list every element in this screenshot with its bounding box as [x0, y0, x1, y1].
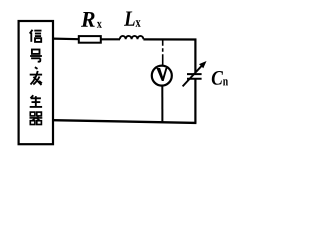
- resistor Rx: [79, 36, 101, 43]
- wire: right branch upper: [194, 39, 196, 73]
- signal generator box (信号发生器): [19, 21, 53, 144]
- capacitor Cn variable arrow: [183, 66, 202, 87]
- wire: resistor to inductor: [101, 38, 120, 40]
- wire: bottom return: [53, 120, 196, 123]
- label Rx: [81, 12, 95, 27]
- char 信: [30, 30, 42, 42]
- char 号: [30, 50, 42, 62]
- wire: voltmeter to bottom: [161, 86, 163, 121]
- label Lx: [124, 12, 135, 26]
- char 器: [30, 112, 43, 124]
- wire: right branch lower: [194, 79, 196, 124]
- label V: [156, 68, 167, 81]
- wire: inductor to top-right corner: [143, 38, 196, 40]
- wire: box to resistor (top): [53, 37, 79, 40]
- inductor Lx: [120, 36, 144, 39]
- node A: junction, wire down to voltmeter: [162, 40, 164, 65]
- char 生: [30, 95, 42, 107]
- capacitor Cn plates: [187, 74, 202, 79]
- char 发: [30, 67, 42, 85]
- voltmeter V: [152, 66, 172, 86]
- label Cn: [212, 71, 223, 85]
